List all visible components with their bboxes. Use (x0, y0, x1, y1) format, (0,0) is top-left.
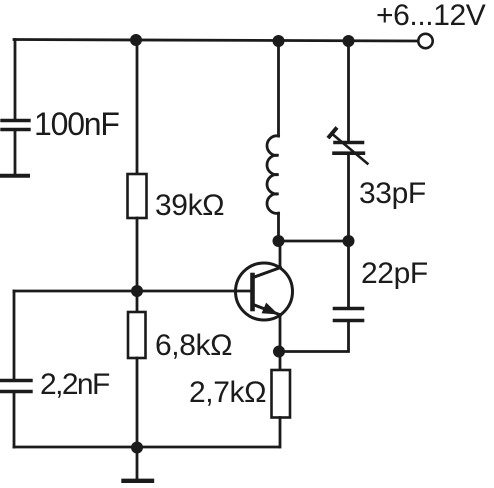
svg-text:2,7kΩ: 2,7kΩ (189, 376, 266, 409)
node: L1 / collector (273, 235, 285, 247)
wire: +V top rail (14, 40, 417, 42)
svg-text:39kΩ: 39kΩ (155, 189, 224, 222)
wire: collector node rail (279, 240, 350, 243)
node: ground (131, 442, 143, 454)
resistor R3 2,7kΩ (272, 352, 291, 448)
svg-text:2,2nF: 2,2nF (40, 368, 110, 401)
terminal: +V supply (418, 34, 432, 48)
wire: 33pF branch from rail (347, 41, 350, 141)
svg-text:6,8kΩ: 6,8kΩ (155, 329, 232, 362)
node: emitter (273, 346, 285, 358)
ground (main, bottom) (124, 447, 153, 481)
svg-text:33pF: 33pF (359, 177, 426, 210)
svg-text:+6...12V: +6...12V (376, 0, 486, 32)
wire: R2 to bottom rail (136, 358, 139, 447)
wire: C1 to ground bar (14, 130, 17, 174)
capacitor C1 100nF (2, 121, 29, 130)
wire: base rail (14, 290, 252, 293)
inductor L1 (267, 40, 279, 241)
wire: collector up to node (279, 241, 282, 268)
ground (under C1) (2, 174, 28, 178)
wire: left branch down to C2 (13, 291, 16, 379)
node: C3 / C4 (343, 235, 355, 247)
wire: R1 to base node (136, 218, 139, 291)
capacitor C2 2,2nF (1, 381, 31, 392)
wire: C2 to bottom rail (13, 392, 16, 447)
svg-text:100nF: 100nF (34, 106, 119, 142)
capacitor C4 22pF (335, 309, 363, 321)
resistor R1 39kΩ (128, 174, 147, 218)
svg-text:22pF: 22pF (361, 257, 428, 290)
wire: C4 down and left to emitter node (279, 321, 349, 352)
wire: emitter down to node (279, 315, 282, 352)
node: rail / R1 (130, 34, 142, 46)
wire: 6,8k branch from base node (136, 291, 139, 312)
wire: C3 to node (347, 154, 350, 241)
resistor R2 6,8kΩ (128, 312, 146, 358)
transistor Q1 (236, 263, 293, 320)
capacitor C3 33pF (trimmer) (329, 129, 367, 164)
wire: 39k branch from rail (136, 40, 139, 174)
node: base (131, 285, 143, 297)
node: rail / C3 (343, 35, 355, 47)
node: rail / L1 (273, 35, 285, 47)
wire: left branch from rail to C1 (14, 40, 17, 120)
wire: node down to C4 (347, 241, 350, 307)
wire: bottom rail (14, 446, 279, 449)
